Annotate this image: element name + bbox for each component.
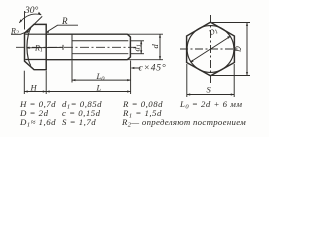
L0 / L / c right extension line (tip) [130,61,132,95]
bolt head outline [25,24,47,69]
hexagon head end view [187,22,235,76]
chamfer arc R2 lower face [28,60,30,66]
c x 45 leader shelf [132,67,141,69]
svg-text:d: d [150,44,160,49]
d extension lines [128,33,163,35]
D dimension line [246,23,248,76]
hexagon vertical centerline [210,15,212,83]
d dimension line [159,34,161,60]
L dimension line [46,91,130,93]
hexagon horizontal centerline [180,48,241,50]
30 deg dimension arc [19,14,41,23]
30 deg extension line vertical [24,11,26,30]
R leader arrowhead [46,30,50,34]
H arrowheads [24,90,46,92]
R leader with shelf [47,25,78,31]
formula text row 2 [19,108,162,120]
svg-text:30°: 30° [24,5,39,16]
chamfer arc R1 on middle face [27,34,29,59]
svg-text:H: H [30,83,38,93]
d1 dimension arrowheads [140,41,142,54]
L0 dimension line [72,79,131,81]
thread inner line lower (d1) [72,53,128,55]
formula text row 1 [19,99,242,111]
inscribed chamfer circle D1 [187,26,234,73]
R1 leader arrow to arc [27,46,63,48]
svg-text:D1≈ 1,6d: D1≈ 1,6d [19,117,56,129]
axis centerline of bolt [16,46,136,48]
D arrowheads [246,23,248,76]
R1 radius center tick on axis [62,45,64,50]
30 deg arc arrowheads [19,12,41,23]
svg-text:S: S [207,85,212,95]
L0 arrowheads [72,79,131,81]
svg-text:R2: R2 [10,26,19,36]
R2 leader arrowhead [26,31,30,34]
svg-text:R1: R1 [34,44,43,54]
H/L shared extension line (head face) [45,71,47,94]
chamfer arc R2 upper face [28,28,30,34]
head face division line upper [25,33,46,35]
H extension line left [23,71,25,94]
R2 label underline [11,33,21,35]
D1 arrowheads [190,36,231,62]
thread boundary line [71,34,73,60]
L0 extension line left (thread start) [71,61,73,83]
svg-text:D: D [234,46,243,53]
svg-text:D1: D1 [206,25,219,38]
L arrowheads [46,90,130,92]
S arrowheads [187,93,234,95]
R2 leader [21,31,29,34]
c x 45 arrowhead [131,67,134,69]
svg-text:S = 1,7d: S = 1,7d [62,117,96,127]
bolt shank outline with tip chamfer [46,34,130,60]
R1 leader arrowhead [26,47,29,49]
svg-text:R: R [61,16,68,26]
svg-text:L0: L0 [96,71,106,83]
H dimension line [24,91,46,93]
formula text row 3 [19,117,246,129]
D extension lines [212,22,250,24]
d dimension arrowheads [159,34,161,60]
svg-text:L0 = 2d + 6 мм: L0 = 2d + 6 мм [179,99,242,111]
thread inner line upper (d1) [72,40,128,42]
svg-text:c×45°: c×45° [139,63,167,74]
30 deg chamfer extension line [34,16,42,24]
svg-text:d1: d1 [132,44,143,52]
svg-text:R2— определяют построением: R2— определяют построением [121,117,246,129]
d1 extension lines at tip [131,40,144,42]
D1 diagonal dimension line [191,36,231,62]
head face division line lower [25,59,46,61]
svg-text:L: L [96,83,102,93]
d1 dimension line [140,41,142,54]
S dimension line [187,94,234,96]
S extension lines [186,64,188,97]
